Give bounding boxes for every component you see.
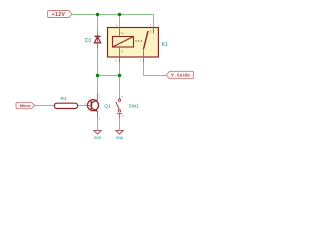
relay coil pin label 1+ bbox=[121, 31, 125, 35]
svg-text:Q1: Q1 bbox=[104, 104, 111, 110]
relay contact lever bbox=[144, 31, 149, 49]
relay contact common pin bbox=[153, 27, 155, 34]
transistor Q1 bbox=[86, 93, 99, 118]
svg-text:GND: GND bbox=[94, 136, 102, 140]
svg-text:D1: D1 bbox=[85, 38, 92, 44]
wire mid tie bbox=[98, 75, 120, 77]
relay contact pin name S bbox=[150, 30, 152, 34]
wire SW1 to ground bbox=[119, 118, 121, 131]
resistor R1 bbox=[55, 103, 78, 108]
svg-text:R1: R1 bbox=[61, 96, 67, 102]
relay pin number 1 bbox=[116, 23, 118, 27]
net label Micro bbox=[16, 102, 35, 108]
ground GND under SW1 bbox=[116, 131, 124, 141]
svg-text:1+: 1+ bbox=[121, 31, 125, 35]
relay coil pin 1 bbox=[119, 27, 121, 37]
switch pin number P bbox=[122, 95, 124, 99]
transistor Q1 name bbox=[104, 104, 111, 110]
svg-text:3: 3 bbox=[99, 117, 101, 121]
transistor pin number 3 bbox=[99, 117, 101, 121]
svg-text:SW1: SW1 bbox=[129, 104, 140, 110]
relay coil pin label 2- bbox=[121, 49, 124, 53]
transistor pin number 1 bbox=[85, 102, 87, 106]
wire Micro to R1 bbox=[35, 105, 55, 107]
svg-text:2-: 2- bbox=[121, 49, 124, 53]
relay dashed actuator link bbox=[136, 40, 144, 42]
svg-text:P: P bbox=[122, 95, 124, 99]
junction at coil top bbox=[118, 13, 121, 16]
resistor R1 name bbox=[61, 96, 67, 102]
wire coil top drop bbox=[119, 15, 121, 28]
svg-text:2: 2 bbox=[99, 95, 101, 99]
junction diode bottom bbox=[96, 74, 99, 77]
wire +12V top rail bbox=[72, 15, 154, 28]
relay coil pin 2 bbox=[119, 47, 121, 62]
svg-text:4: 4 bbox=[140, 58, 142, 62]
switch SW1 bbox=[116, 98, 122, 118]
transistor pin number 2 bbox=[99, 95, 101, 99]
svg-text:Micro: Micro bbox=[20, 103, 31, 108]
svg-text:2: 2 bbox=[116, 58, 118, 62]
junction at diode top bbox=[96, 13, 99, 16]
svg-text:1: 1 bbox=[116, 23, 118, 27]
relay K1 name bbox=[162, 42, 168, 48]
svg-text:+12V: +12V bbox=[52, 12, 66, 18]
relay K1 body bbox=[108, 28, 159, 58]
relay contact output pin bbox=[143, 49, 145, 62]
wire Q1 emitter to ground bbox=[97, 118, 99, 131]
relay pin number 2 bbox=[116, 58, 118, 62]
svg-text:1: 1 bbox=[85, 102, 87, 106]
svg-text:K1: K1 bbox=[162, 42, 168, 48]
diode D1 name bbox=[85, 38, 92, 44]
relay pin number 4 bbox=[140, 58, 142, 62]
net label V_Saida bbox=[166, 71, 193, 78]
junction coil bottom bbox=[118, 74, 121, 77]
svg-text:S: S bbox=[150, 30, 152, 34]
relay K1 coil bbox=[113, 37, 134, 48]
wire coil bottom to switch bbox=[119, 57, 121, 98]
svg-text:S: S bbox=[122, 114, 124, 118]
wire diode branch bbox=[97, 15, 99, 94]
wire R1 to Q1 base bbox=[78, 105, 87, 107]
diode D1 bbox=[94, 31, 100, 48]
switch pin number S bbox=[122, 114, 124, 118]
switch SW1 name bbox=[129, 104, 140, 110]
relay pin number 3 bbox=[150, 23, 152, 27]
wire relay output to V_Saida bbox=[144, 62, 167, 76]
ground GND under Q1 bbox=[94, 131, 102, 141]
supply flag +12V bbox=[48, 11, 73, 18]
svg-text:GND: GND bbox=[116, 136, 124, 140]
svg-text:V_Saida: V_Saida bbox=[171, 73, 190, 78]
svg-text:3: 3 bbox=[150, 23, 152, 27]
